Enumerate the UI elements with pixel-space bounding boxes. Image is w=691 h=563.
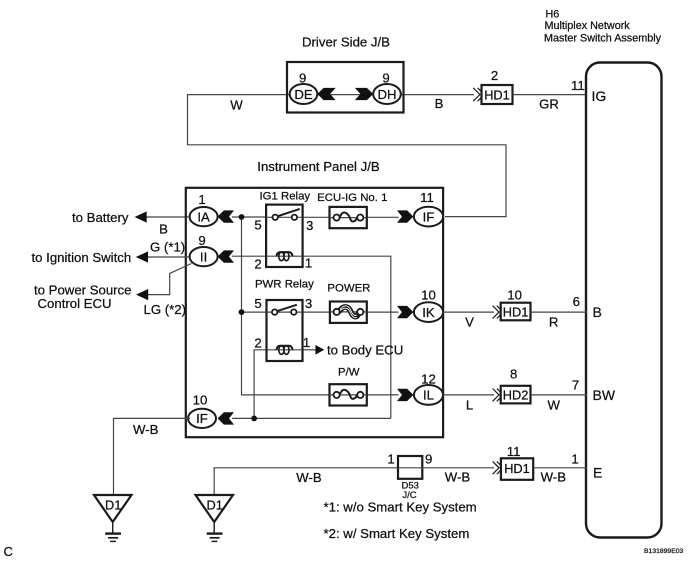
wire vertical from IA junction down to P/W row bbox=[242, 217, 331, 395]
label to Power Source Control ECU bbox=[34, 283, 132, 311]
svg-text:10: 10 bbox=[507, 287, 522, 302]
wire ECU-IG row to IF bbox=[302, 216, 399, 218]
svg-text:to Body ECU: to Body ECU bbox=[327, 342, 403, 357]
svg-text:1: 1 bbox=[198, 192, 205, 207]
svg-text:1: 1 bbox=[303, 335, 310, 350]
junction dot PWR-5 row bbox=[239, 309, 245, 315]
svg-text:10: 10 bbox=[193, 393, 208, 408]
svg-text:HD2: HD2 bbox=[503, 388, 529, 403]
svg-text:L: L bbox=[466, 398, 473, 413]
svg-text:*2: w/ Smart Key System: *2: w/ Smart Key System bbox=[324, 526, 470, 541]
wire PWR coil return bbox=[254, 350, 267, 419]
fuse POWER bbox=[330, 302, 367, 323]
svg-text:W-B: W-B bbox=[296, 470, 322, 485]
inline connector chevrons (E row) bbox=[493, 461, 504, 474]
svg-text:W: W bbox=[230, 98, 243, 113]
svg-text:Control ECU: Control ECU bbox=[38, 296, 112, 311]
inline connector chevrons top bbox=[473, 88, 484, 101]
arrow to Ignition Switch bbox=[136, 251, 148, 262]
svg-text:IL: IL bbox=[423, 388, 434, 403]
svg-text:7: 7 bbox=[572, 378, 579, 393]
svg-text:IF: IF bbox=[423, 209, 435, 224]
svg-text:11: 11 bbox=[420, 190, 434, 205]
svg-text:B131899E03: B131899E03 bbox=[644, 548, 684, 555]
svg-text:10: 10 bbox=[421, 287, 436, 302]
chevron arrow at DE bbox=[317, 88, 335, 100]
connector HD1 (middle) bbox=[501, 303, 531, 321]
svg-text:*1: w/o Smart Key System: *1: w/o Smart Key System bbox=[324, 500, 477, 515]
svg-text:BW: BW bbox=[593, 387, 616, 403]
svg-text:Driver Side J/B: Driver Side J/B bbox=[302, 35, 390, 50]
wire W loop from DE to IF bbox=[188, 95, 507, 217]
junction dot IA row bbox=[239, 214, 245, 220]
wire W to tall box bbox=[531, 394, 588, 396]
ground D1 (right) bbox=[196, 495, 234, 522]
svg-text:W-B: W-B bbox=[133, 422, 159, 437]
svg-text:DE: DE bbox=[294, 87, 313, 102]
svg-text:Master Switch Assembly: Master Switch Assembly bbox=[544, 33, 662, 45]
connector IF (top right) bbox=[414, 207, 443, 227]
svg-text:IK: IK bbox=[422, 305, 435, 320]
wire IG1 coil row (II to relay) bbox=[232, 255, 267, 257]
svg-text:LG (*2): LG (*2) bbox=[144, 302, 187, 317]
ground symbol (right) bbox=[207, 522, 223, 541]
inline connector chevrons (IK row) bbox=[493, 306, 504, 319]
wire POWER row to IK bbox=[302, 311, 399, 313]
svg-text:IA: IA bbox=[197, 209, 210, 224]
svg-text:HD1: HD1 bbox=[484, 87, 510, 102]
svg-text:H6: H6 bbox=[546, 8, 560, 20]
wire B from DH to HD1 bbox=[399, 94, 474, 96]
connector II bbox=[190, 247, 218, 266]
chevron arrow at IF (top right) bbox=[397, 210, 413, 222]
wire GR bbox=[513, 94, 588, 96]
svg-text:9: 9 bbox=[299, 71, 306, 86]
svg-text:W-B: W-B bbox=[445, 470, 471, 485]
svg-text:R: R bbox=[549, 315, 559, 330]
connector DE bbox=[290, 84, 318, 104]
connector DH bbox=[373, 84, 401, 104]
svg-text:5: 5 bbox=[254, 218, 261, 233]
connector IK bbox=[414, 302, 443, 322]
svg-text:II: II bbox=[200, 249, 207, 264]
svg-text:D1: D1 bbox=[105, 498, 121, 513]
wire W-B from ground D1 right to D53 bbox=[214, 468, 398, 496]
svg-text:8: 8 bbox=[510, 367, 517, 382]
svg-text:6: 6 bbox=[573, 294, 580, 309]
wire V from IK to HD1 bbox=[443, 311, 494, 313]
svg-text:1: 1 bbox=[305, 256, 312, 271]
wire W-B HD1 to tall box bbox=[533, 467, 587, 469]
svg-text:Instrument Panel J/B: Instrument Panel J/B bbox=[257, 159, 380, 174]
wire DE to DH bbox=[315, 94, 375, 96]
relay IG1 bbox=[266, 205, 303, 267]
connector HD2 bbox=[501, 386, 531, 404]
arrow to Battery bbox=[135, 211, 147, 222]
svg-text:D1: D1 bbox=[207, 498, 223, 513]
Instrument Panel J/B box bbox=[186, 188, 443, 437]
svg-text:G (*1): G (*1) bbox=[150, 240, 185, 255]
svg-text:9: 9 bbox=[382, 71, 389, 86]
svg-text:3: 3 bbox=[306, 218, 313, 233]
svg-text:IF: IF bbox=[196, 411, 208, 426]
svg-text:12: 12 bbox=[421, 372, 436, 387]
chevron arrow at IL bbox=[397, 389, 413, 401]
chevron arrow at DH bbox=[355, 88, 373, 100]
svg-text:9: 9 bbox=[198, 233, 205, 248]
wire R to tall box bbox=[531, 311, 588, 313]
chevron arrow at II bbox=[218, 250, 234, 262]
svg-text:2: 2 bbox=[254, 336, 261, 351]
arrow to Body ECU bbox=[315, 345, 324, 355]
svg-text:GR: GR bbox=[539, 97, 559, 112]
svg-text:3: 3 bbox=[305, 296, 312, 311]
relay PWR bbox=[267, 300, 303, 361]
svg-text:11: 11 bbox=[571, 78, 585, 93]
connector IF (bottom) bbox=[188, 409, 216, 428]
chevron arrow at IK bbox=[397, 306, 413, 318]
svg-text:POWER: POWER bbox=[327, 283, 370, 295]
wire P/W row to IL bbox=[366, 394, 399, 396]
svg-text:PWR Relay: PWR Relay bbox=[255, 279, 314, 291]
svg-text:B: B bbox=[159, 222, 168, 237]
wire PWR-5 from junction bbox=[242, 311, 268, 313]
svg-text:W-B: W-B bbox=[541, 469, 567, 484]
H6 Multiplex Network Master Switch Assembly label bbox=[544, 8, 662, 44]
svg-text:11: 11 bbox=[507, 444, 521, 459]
wire W-B from bottom IF to ground D1 bbox=[114, 418, 191, 496]
svg-text:P/W: P/W bbox=[338, 367, 360, 379]
connector IA bbox=[190, 207, 218, 226]
svg-text:IG: IG bbox=[592, 88, 607, 104]
svg-text:2: 2 bbox=[254, 257, 261, 272]
svg-text:W: W bbox=[547, 398, 560, 413]
wire to Power Source Control ECU bbox=[146, 264, 192, 295]
svg-text:B: B bbox=[593, 304, 602, 320]
svg-text:DH: DH bbox=[377, 87, 396, 102]
svg-text:ECU-IG No. 1: ECU-IG No. 1 bbox=[317, 192, 387, 204]
Multiplex Network Master Switch Assembly box bbox=[586, 63, 662, 538]
chevron arrow at IF (bottom) bbox=[218, 412, 234, 424]
wire IG1 coil out to bottom rail bbox=[302, 256, 391, 418]
svg-text:B: B bbox=[435, 96, 444, 111]
inline connector chevrons (IL row) bbox=[493, 389, 504, 402]
wire to Ignition Switch bbox=[141, 256, 191, 258]
chevron arrow at IA bbox=[218, 210, 234, 222]
wire PWR-1 to Body ECU arrow bbox=[302, 349, 316, 351]
Driver Side J/B box bbox=[287, 62, 404, 113]
wire IA to IG1 relay bbox=[232, 216, 267, 218]
connector HD1 (top) bbox=[482, 85, 513, 104]
connector HD1 (bottom) bbox=[501, 458, 533, 480]
junction connector D53 bbox=[398, 456, 422, 479]
svg-text:HD1: HD1 bbox=[503, 304, 529, 319]
svg-text:2: 2 bbox=[491, 68, 498, 83]
connector IL bbox=[414, 385, 443, 405]
junction dot bottom rail bbox=[251, 416, 257, 422]
svg-text:9: 9 bbox=[425, 452, 432, 467]
svg-text:1: 1 bbox=[571, 452, 578, 467]
wire L from IL to HD2 bbox=[443, 394, 494, 396]
wire bottom IF rail bbox=[232, 417, 391, 419]
svg-text:to Battery: to Battery bbox=[72, 210, 129, 225]
svg-text:HD1: HD1 bbox=[504, 461, 530, 476]
fuse ECU-IG No. 1 bbox=[330, 207, 367, 228]
fuse P/W bbox=[330, 384, 367, 405]
arrow to Power Source Control ECU bbox=[136, 289, 148, 300]
wire W-B D53 to HD1 bbox=[422, 467, 494, 469]
wire to Battery bbox=[140, 216, 191, 218]
svg-text:V: V bbox=[465, 315, 474, 330]
svg-text:E: E bbox=[593, 464, 602, 480]
svg-text:1: 1 bbox=[387, 452, 394, 467]
svg-text:5: 5 bbox=[254, 296, 261, 311]
svg-text:to Ignition Switch: to Ignition Switch bbox=[32, 250, 132, 265]
ground D1 (left) bbox=[94, 495, 132, 522]
svg-text:IG1 Relay: IG1 Relay bbox=[259, 191, 310, 203]
ground symbol (left) bbox=[105, 522, 121, 541]
svg-text:Multiplex Network: Multiplex Network bbox=[545, 20, 631, 32]
svg-text:C: C bbox=[4, 544, 13, 559]
